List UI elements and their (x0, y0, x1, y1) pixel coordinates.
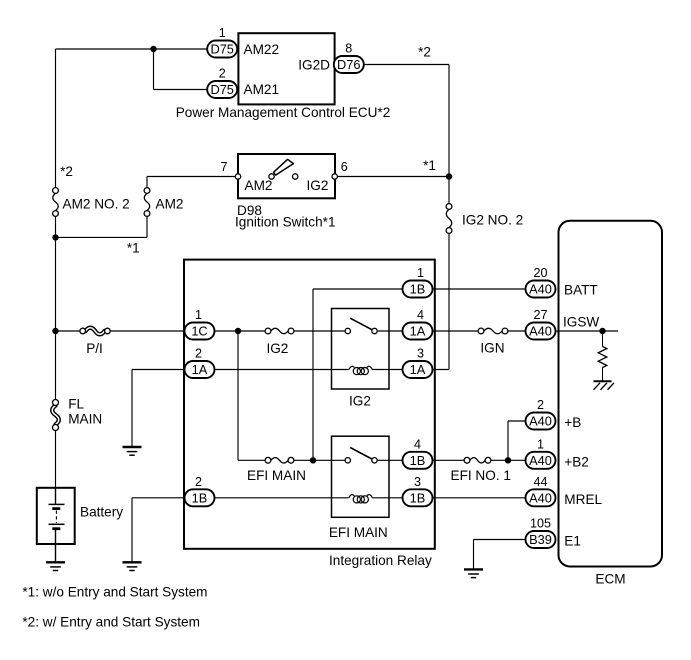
wire IGSW internal stub (556, 330, 618, 332)
svg-text:MREL: MREL (564, 492, 602, 507)
relay EFI MAIN contact right (372, 458, 377, 463)
svg-text:IG2: IG2 (307, 178, 329, 193)
battery cell symbol (55, 488, 57, 505)
svg-text:2: 2 (219, 67, 226, 81)
wire D76 pin 8 to IG2 NO. 2 branch (363, 64, 449, 66)
svg-text:3: 3 (417, 347, 424, 361)
svg-text:IG2: IG2 (266, 341, 288, 356)
wire 1A pin 4 to IGN fuse to ECM IGSW (433, 330, 478, 332)
svg-text:AM2: AM2 (156, 197, 184, 212)
svg-text:A40: A40 (529, 490, 552, 505)
relay IG2 blade (350, 318, 372, 330)
svg-text:+B: +B (564, 415, 581, 430)
pin 6 terminal of ignition switch (332, 174, 337, 179)
node junction 1C to EFI MAIN drop (235, 328, 241, 334)
svg-text:A40: A40 (529, 453, 552, 468)
battery box (37, 488, 75, 544)
svg-text:AM2 NO. 2: AM2 NO. 2 (63, 197, 130, 212)
wire P/I row into 1C (56, 330, 80, 332)
svg-text:B39: B39 (529, 532, 552, 547)
fuse IGN (478, 328, 484, 334)
node junction +B branch (505, 457, 511, 463)
connector 1A pin 2 oval (left) (185, 361, 215, 378)
svg-text:D75: D75 (210, 42, 233, 57)
svg-text:IG2 NO. 2: IG2 NO. 2 (462, 212, 523, 227)
fuse IG2 NO. 2 (446, 204, 452, 210)
connector 1B pin 1 oval (403, 281, 433, 298)
svg-text:2: 2 (195, 475, 202, 489)
svg-text:44: 44 (533, 475, 547, 489)
svg-text:EFI MAIN: EFI MAIN (247, 468, 306, 483)
connector A40 pin 20 oval (526, 281, 556, 298)
connector 1B pin 2 oval (left) (185, 489, 215, 506)
svg-text:P/I: P/I (86, 341, 103, 356)
node junction rail to P/I (52, 328, 58, 334)
connector A40 pin 2 oval (526, 413, 556, 430)
wire 1B pin 1 to EFI MAIN junction (313, 288, 403, 290)
contact AM2 of ignition switch (269, 174, 274, 179)
wire 1A pin 2 to IG2 relay coil (214, 369, 349, 371)
relay IG2 box (332, 309, 390, 390)
ground battery (46, 561, 65, 563)
svg-text:EFI MAIN: EFI MAIN (329, 525, 388, 540)
svg-text:1B: 1B (410, 453, 426, 468)
fuse AM2 (144, 188, 150, 194)
svg-text:105: 105 (530, 517, 551, 531)
fuse EFI MAIN (265, 457, 271, 463)
svg-text:E1: E1 (564, 534, 581, 549)
wire 1B pin 4 to EFI NO. 1 to ECM +B2 (433, 459, 464, 461)
ECU block ECM box (559, 221, 663, 567)
svg-text:1: 1 (195, 308, 202, 322)
relay IG2 coil (349, 366, 355, 369)
ground 1B pin 2 (123, 561, 142, 563)
fuse AM2 NO. 2 (53, 188, 59, 194)
connector A40 pin 44 oval (526, 489, 556, 506)
svg-text:2: 2 (537, 398, 544, 412)
svg-text:1A: 1A (410, 362, 426, 377)
wire IG2 relay coil to 1A pin 3 (372, 369, 402, 371)
connector 1A pin 3 oval (403, 361, 433, 378)
svg-text:2: 2 (195, 347, 202, 361)
node junction IG2 NO. 2 top (446, 173, 452, 179)
connector 1B pin 4 oval (403, 452, 433, 469)
connector A40 pin 27 oval (526, 323, 556, 340)
node junction IGSW to pull-down resistor (599, 328, 605, 334)
pin 7 terminal of ignition switch (235, 174, 240, 179)
svg-text:27: 27 (533, 308, 547, 322)
svg-text:*1: *1 (423, 158, 436, 173)
wire 1B pin 2 to ground (132, 497, 185, 499)
svg-text:1A: 1A (410, 324, 426, 339)
svg-text:1: 1 (219, 26, 226, 40)
ground chassis for resistor (594, 380, 612, 382)
svg-text:1: 1 (417, 266, 424, 280)
svg-text:1B: 1B (192, 490, 208, 505)
svg-text:BATT: BATT (564, 282, 598, 297)
wire drop 1C to EFI MAIN fuse (237, 331, 239, 460)
op-amp-style block Power Management Control ECU box (238, 33, 334, 104)
svg-text:7: 7 (220, 160, 227, 174)
ground 1A pin 2 (123, 446, 142, 448)
svg-text:*2: w/ Entry and Start System: *2: w/ Entry and Start System (22, 615, 200, 630)
wire battery positive rail (left vertical) (55, 49, 57, 187)
svg-text:1: 1 (537, 438, 544, 452)
svg-text:IGSW: IGSW (563, 314, 599, 329)
svg-text:4: 4 (417, 308, 424, 322)
svg-text:*1: w/o Entry and Start System: *1: w/o Entry and Start System (22, 585, 207, 600)
svg-text:1C: 1C (191, 324, 207, 339)
svg-text:FL: FL (68, 397, 84, 412)
fuse EFI NO. 1 (464, 457, 470, 463)
connector 1B pin 3 oval (403, 489, 433, 506)
svg-text:ECM: ECM (595, 572, 625, 587)
svg-text:A40: A40 (529, 324, 552, 339)
svg-text:AM21: AM21 (244, 82, 280, 97)
relay EFI MAIN blade (350, 448, 372, 460)
svg-text:IGN: IGN (480, 340, 504, 355)
relay EFI MAIN contact left (345, 458, 350, 463)
switch block D98 Ignition Switch box (238, 154, 335, 198)
svg-text:MAIN: MAIN (68, 411, 102, 426)
svg-text:3: 3 (414, 475, 421, 489)
svg-text:EFI NO. 1: EFI NO. 1 (451, 468, 511, 483)
relay EFI MAIN box (332, 436, 390, 517)
wire D75 pin 1 feed (top horizontal) (56, 48, 209, 50)
wire 1B pin 3 to ECM MREL (433, 497, 527, 499)
fusible link P/I (86, 328, 105, 335)
wire 1B pin 2 to EFI MAIN relay coil (214, 497, 349, 499)
svg-text:+B2: +B2 (564, 454, 589, 469)
connector 1C pin 1 oval (185, 323, 215, 340)
connector A40 pin 1 oval (526, 452, 556, 469)
svg-text:1A: 1A (192, 362, 208, 377)
connector B39 pin 105 oval (526, 531, 556, 548)
node junction rail to AM2 branch (52, 234, 58, 240)
svg-text:4: 4 (414, 438, 421, 452)
wire ignition switch pin 6 to IG2 NO. 2 (335, 176, 449, 178)
contact IG2 of ignition switch (293, 174, 298, 179)
svg-text:1B: 1B (410, 490, 426, 505)
wire branch to D75 pin 2 (153, 49, 155, 90)
svg-text:AM2: AM2 (245, 178, 273, 193)
wire AM2 fuse branch (56, 236, 148, 238)
connector D75 pin 1 oval (207, 41, 237, 58)
wire 1C to IG2 relay (214, 330, 265, 332)
svg-text:20: 20 (533, 266, 547, 280)
svg-text:6: 6 (341, 160, 348, 174)
svg-text:8: 8 (345, 42, 352, 56)
ground E1 (464, 568, 483, 570)
svg-text:*2: *2 (418, 44, 431, 59)
svg-text:AM22: AM22 (244, 42, 280, 57)
wire EFI MAIN relay coil to 1B pin 3 (372, 497, 402, 499)
connector 1A pin 4 oval (403, 323, 433, 340)
svg-text:Integration Relay: Integration Relay (329, 553, 432, 568)
wire IG2 relay contact to 1A pin 4 (378, 330, 403, 332)
switch lever of ignition switch (274, 159, 294, 175)
svg-text:D75: D75 (210, 82, 233, 97)
svg-text:*1: *1 (127, 240, 140, 255)
svg-text:Power Management Control ECU*2: Power Management Control ECU*2 (176, 105, 391, 120)
wire EFI MAIN fuse row (238, 459, 265, 461)
svg-text:A40: A40 (529, 282, 552, 297)
relay IG2 contact left (345, 328, 350, 333)
fuse IG2 (265, 328, 271, 334)
connector D76 pin 8 oval (334, 56, 364, 73)
node junction 1B drop on EFI MAIN row (310, 457, 316, 463)
relay IG2 contact right (372, 328, 377, 333)
relay block Integration Relay box (184, 260, 435, 549)
svg-text:D76: D76 (337, 57, 360, 72)
wire ECM E1 to ground (474, 539, 527, 541)
svg-text:Ignition Switch*1: Ignition Switch*1 (235, 215, 336, 230)
svg-text:A40: A40 (529, 414, 552, 429)
wire 1A pin 2 to ground (132, 369, 185, 371)
svg-text:*2: *2 (60, 164, 73, 179)
fusible link FL MAIN (52, 406, 59, 425)
relay EFI MAIN coil (349, 495, 355, 498)
wire EFI MAIN relay contact to 1B pin 4 (378, 459, 403, 461)
resistor pull-down on IGSW (602, 331, 604, 347)
wire 1B pin 1 to ECM BATT (433, 288, 527, 290)
svg-text:1B: 1B (410, 282, 426, 297)
svg-text:IG2: IG2 (349, 394, 371, 409)
connector D75 pin 2 oval (207, 81, 237, 98)
svg-text:Battery: Battery (80, 505, 123, 520)
wire branch to ECM +B (507, 421, 509, 460)
node junction on D75 feed (150, 46, 156, 52)
wire IG2 NO. 2 vertical (448, 177, 450, 204)
svg-text:IG2D: IG2D (298, 57, 330, 72)
